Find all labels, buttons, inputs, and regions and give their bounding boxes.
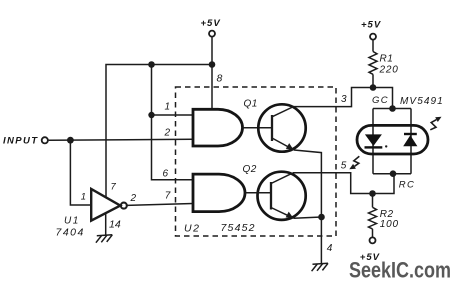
wire VCC bus to U1 pin 7: [106, 65, 212, 198]
node RC: [390, 170, 397, 177]
svg-text:1: 1: [81, 192, 86, 203]
wire gate1 output: [243, 127, 272, 129]
svg-text:7404: 7404: [56, 226, 85, 238]
wire gate2 output: [245, 192, 271, 194]
svg-text:3: 3: [341, 94, 347, 105]
svg-text:7: 7: [111, 182, 117, 193]
svg-text:GC: GC: [372, 95, 389, 106]
wire pin 14 to ground: [105, 213, 107, 235]
svg-text:75452: 75452: [221, 222, 256, 234]
node pin1 junction: [148, 112, 154, 118]
svg-text:1: 1: [165, 101, 171, 112]
node INPUT junction: [67, 137, 74, 144]
node GC: [389, 105, 396, 112]
photon arrow at pin 5: [349, 156, 359, 169]
svg-text:7: 7: [165, 191, 171, 202]
svg-text:2: 2: [130, 193, 137, 204]
wire Q1 emitter down: [294, 150, 321, 264]
svg-text:U2: U2: [184, 223, 200, 235]
svg-text:MV5491: MV5491: [400, 96, 444, 107]
wire GC bar and LED rails: [373, 109, 411, 174]
svg-text:Q2: Q2: [243, 164, 257, 175]
node emitter junction: [318, 214, 325, 221]
wire INPUT to pin 2: [49, 139, 193, 140]
wire Q1 collector to pin 3 and R1 node: [294, 88, 393, 109]
svg-text:6: 6: [163, 169, 169, 180]
node R2 junction: [369, 190, 376, 197]
+5V terminal top: [201, 18, 221, 37]
node R1 junction: [370, 84, 377, 91]
LED left diode: [365, 134, 383, 148]
INPUT terminal: [3, 136, 48, 147]
wire to inverter input: [70, 140, 91, 205]
node VCC bus junction A: [148, 61, 155, 68]
transistor Q1: [258, 104, 305, 151]
svg-text:INPUT: INPUT: [3, 136, 39, 147]
wire inverter output to pin 7: [127, 204, 193, 206]
svg-text:4: 4: [327, 243, 333, 254]
+5V terminal bottom: [360, 237, 380, 263]
svg-text:220: 220: [379, 64, 399, 75]
svg-text:+5V: +5V: [361, 19, 381, 30]
AND gate 2: [193, 174, 245, 212]
svg-text:+5V: +5V: [201, 18, 221, 29]
AND gate 1: [193, 109, 242, 146]
wire Q2 emitter to node: [294, 217, 322, 218]
dashed box U2 package: [176, 87, 337, 236]
+5V terminal R1: [361, 19, 381, 39]
wire branch to U2 pin 1 and pin 6: [152, 65, 194, 180]
center mark: [385, 145, 387, 147]
svg-text:R1: R1: [380, 54, 394, 65]
resistor R2: [369, 194, 377, 238]
svg-text:5: 5: [341, 160, 347, 171]
node VCC bus junction B: [209, 61, 216, 68]
transistor Q2: [258, 172, 306, 220]
svg-text:Q1: Q1: [244, 99, 258, 110]
svg-text:RC: RC: [399, 179, 416, 190]
svg-text:14: 14: [109, 219, 121, 231]
LED right diode: [403, 133, 417, 146]
svg-text:U1: U1: [64, 216, 80, 227]
photon arrow top right: [430, 117, 441, 130]
resistor R1: [369, 40, 377, 88]
svg-text:2: 2: [164, 127, 171, 138]
wire Q2 collector to pin 5 path: [293, 173, 394, 194]
inverter U1 7404: [91, 189, 127, 221]
ground pin 4: [312, 263, 328, 271]
svg-text:8: 8: [217, 73, 223, 85]
svg-text:100: 100: [380, 219, 399, 230]
LED package MV5491: [357, 125, 428, 154]
wire +5V to bus and pin 8: [211, 37, 213, 110]
svg-text:SeekIC.com: SeekIC.com: [349, 258, 451, 283]
ground U1: [96, 235, 112, 243]
